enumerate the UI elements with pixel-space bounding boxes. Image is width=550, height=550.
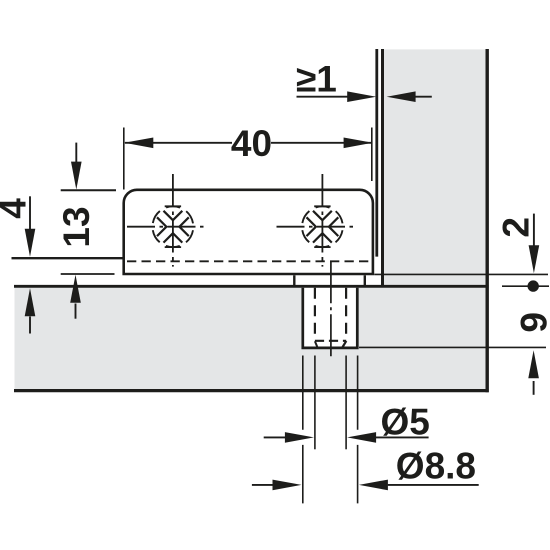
plate dashed line [127,260,371,262]
dowel collar right [364,275,366,285]
board top extension line (dot reference) [502,285,549,287]
dowel centerline [330,261,332,357]
screw hole hidden lines (O5) [315,288,346,348]
dowel tip extension line (for 9) [359,346,546,348]
door panel (vertical, grey fill) [384,49,486,287]
dimension O5 [264,356,430,504]
right edge of panel and board [486,49,489,392]
svg-text:40: 40 [231,123,272,164]
board bottom edge [14,389,489,392]
mounting plate body [124,190,373,274]
dowel collar left [293,275,295,285]
clearance reference line (for &ge;1) [375,49,378,257]
board top edge [14,285,489,288]
dimension O8.8 [252,445,479,490]
svg-text:Ø8.8: Ø8.8 [396,445,476,486]
svg-text:9: 9 [513,312,550,333]
screw U2 (right) [277,174,358,267]
dowel hole (white cut in board) [304,288,356,347]
dimension 40 [124,123,373,190]
tick extension of plate top (13 dim) [61,189,116,191]
svg-text:2: 2 [496,217,537,238]
dimension 2 [496,214,540,292]
svg-text:4: 4 [0,198,34,219]
hinge arm reference line (for 4) [12,257,124,259]
dimension >=1 [296,59,432,103]
plate bottom extension line (for 2) [374,273,548,275]
screw U1 (left) [127,174,208,267]
svg-text:13: 13 [56,206,97,247]
dimension 4 [0,196,35,333]
dowel body outline [303,288,358,348]
tick extension of plate bottom (13 dim) [61,273,115,275]
panel left surface line [381,49,384,287]
svg-text:Ø5: Ø5 [381,402,430,443]
cabinet board (horizontal, grey fill) [15,286,488,391]
dimension 9 [513,312,550,395]
dimension 13 [56,143,97,319]
svg-text:≥1: ≥1 [296,59,337,100]
